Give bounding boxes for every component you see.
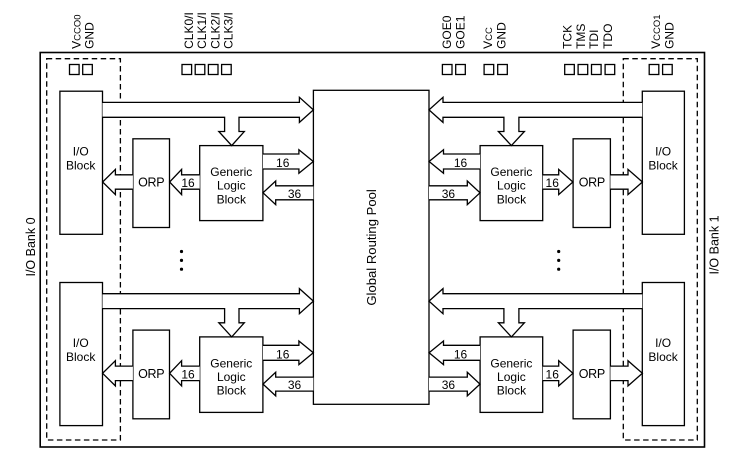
svg-text:16: 16 (454, 156, 468, 170)
pin VCCO1 (649, 65, 659, 75)
svg-text:Block: Block (497, 384, 527, 398)
svg-text:CLK1/I: CLK1/I (195, 12, 209, 49)
svg-text:VCCO1: VCCO1 (649, 14, 663, 48)
bus arrow 36: bottom GRP to left GLB (263, 372, 313, 396)
bus arrow 16: bottom right GLB to GRP (429, 341, 480, 365)
svg-text:TMS: TMS (574, 24, 588, 49)
bus arrow 36: top GRP to right GLB (429, 181, 480, 205)
bus arrow: bottom left I/O Block to GRP with branch to GLB (103, 289, 314, 337)
bus arrow: top left ORP to I/O Block (103, 169, 133, 194)
pin TCK (565, 65, 575, 75)
svg-text:TDO: TDO (601, 24, 615, 49)
pin CLK3/I (222, 65, 232, 75)
svg-text:Generic: Generic (490, 356, 532, 370)
ORP (bottom left) (133, 330, 170, 419)
I/O Block (top left) (60, 91, 103, 234)
svg-text:ORP: ORP (579, 176, 605, 190)
svg-text:Logic: Logic (497, 179, 526, 193)
svg-text:GOE0: GOE0 (440, 15, 454, 49)
ORP (top left) (133, 139, 170, 228)
pin VCC (484, 65, 494, 75)
svg-text:GOE1: GOE1 (453, 15, 467, 49)
svg-text:16: 16 (546, 368, 560, 382)
svg-text:I/O: I/O (73, 145, 89, 159)
svg-text:16: 16 (276, 156, 290, 170)
ellipsis dots left (more GLB/ORP rows) (180, 250, 183, 271)
svg-text:Block: Block (648, 159, 678, 173)
Generic Logic Block (top left) (200, 146, 263, 221)
svg-text:GND: GND (83, 22, 97, 49)
svg-text:Generic: Generic (490, 165, 532, 179)
svg-text:16: 16 (454, 347, 468, 361)
svg-text:36: 36 (442, 378, 456, 392)
bus arrow 16: top right GLB to GRP (429, 150, 480, 174)
I/O Block (bottom left) (60, 283, 103, 426)
bus arrow: top left I/O Block to GRP with branch to GLB (103, 97, 314, 145)
svg-text:36: 36 (288, 187, 302, 201)
I/O Block (top right) (642, 91, 684, 234)
I/O Bank 1 dashed region (623, 59, 697, 440)
svg-text:GND: GND (662, 22, 676, 49)
Generic Logic Block (bottom left) (200, 337, 263, 413)
pin TDI (592, 65, 602, 75)
pin GND (core) (498, 65, 508, 75)
svg-text:I/O: I/O (655, 145, 671, 159)
pin CLK1/I (195, 65, 205, 75)
bus arrow 16: bottom left GLB to GRP (263, 341, 313, 365)
pin TDO (605, 65, 615, 75)
svg-text:Block: Block (648, 350, 678, 364)
bus arrow: bottom right I/O Block to GRP with branch to GLB (429, 289, 642, 337)
bus arrow: bottom left ORP to I/O Block (103, 361, 133, 386)
outer device boundary (40, 53, 704, 448)
svg-text:TCK: TCK (560, 25, 574, 49)
Global Routing Pool block (313, 90, 429, 404)
bus arrow 16: top right GLB to ORP (543, 169, 573, 194)
bus arrow 36: bottom GRP to right GLB (429, 372, 480, 396)
bus arrow: top right I/O Block to GRP with branch to GLB (429, 97, 642, 145)
svg-text:I/O: I/O (73, 336, 89, 350)
bus arrow 16: bottom right GLB to ORP (543, 361, 573, 386)
svg-text:CLK2/I: CLK2/I (208, 12, 222, 49)
svg-text:ORP: ORP (138, 176, 164, 190)
svg-text:Block: Block (66, 350, 96, 364)
bus arrow 36: top GRP to left GLB (263, 181, 313, 205)
ORP (top right) (573, 139, 610, 228)
svg-text:Block: Block (66, 159, 96, 173)
bus arrow: bottom right ORP to I/O Block (610, 361, 642, 386)
svg-text:Global Routing Pool: Global Routing Pool (364, 189, 379, 306)
svg-text:Block: Block (497, 192, 527, 206)
bus arrow: top right ORP to I/O Block (610, 169, 642, 194)
svg-text:CLK0/I: CLK0/I (182, 12, 196, 49)
I/O Block (bottom right) (642, 283, 684, 426)
Generic Logic Block (bottom right) (480, 337, 543, 413)
ORP (bottom right) (573, 330, 610, 419)
pin VCCO0 (70, 65, 80, 75)
ellipsis dots right (more GLB/ORP rows) (557, 250, 560, 271)
svg-text:GND: GND (495, 22, 509, 49)
svg-text:Block: Block (217, 384, 247, 398)
svg-text:ORP: ORP (138, 367, 164, 381)
svg-text:Logic: Logic (217, 370, 246, 384)
svg-text:36: 36 (442, 187, 456, 201)
pin GND (bank1) (663, 65, 673, 75)
svg-text:16: 16 (181, 368, 195, 382)
pin GOE1 (456, 65, 466, 75)
svg-text:Generic: Generic (210, 356, 252, 370)
pin TMS (578, 65, 588, 75)
pin CLK0/I (182, 65, 192, 75)
svg-text:I/O: I/O (655, 336, 671, 350)
svg-text:Logic: Logic (217, 179, 246, 193)
svg-text:16: 16 (276, 347, 290, 361)
pin CLK2/I (208, 65, 218, 75)
svg-text:I/O Bank 1: I/O Bank 1 (707, 215, 721, 274)
svg-text:Logic: Logic (497, 370, 526, 384)
svg-text:VCCO0: VCCO0 (69, 14, 83, 48)
svg-text:Generic: Generic (210, 165, 252, 179)
svg-text:VCC: VCC (481, 27, 495, 49)
svg-text:CLK3/I: CLK3/I (222, 12, 236, 49)
svg-text:I/O Bank 0: I/O Bank 0 (24, 217, 38, 276)
svg-text:16: 16 (181, 176, 195, 190)
svg-text:16: 16 (546, 176, 560, 190)
Generic Logic Block (top right) (480, 146, 543, 221)
svg-text:36: 36 (288, 378, 302, 392)
I/O Bank 0 dashed region (47, 59, 121, 440)
svg-text:TDI: TDI (587, 30, 601, 49)
bus arrow 16: top left GLB to GRP (263, 150, 313, 174)
bus arrow 16: top left GLB to ORP (170, 169, 200, 194)
bus arrow 16: bottom left GLB to ORP (170, 361, 200, 386)
pin GND (bank0) (83, 65, 93, 75)
svg-text:Block: Block (217, 192, 247, 206)
pin GOE0 (442, 65, 452, 75)
svg-text:ORP: ORP (579, 367, 605, 381)
